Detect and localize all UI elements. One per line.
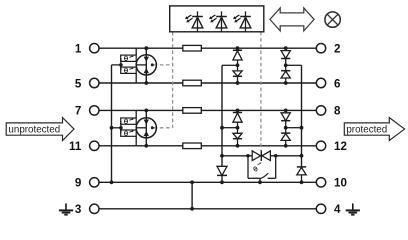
wire line 11-12 (row 11): [99, 145, 316, 147]
junction x285.7 row y110.4: [284, 109, 288, 113]
wire left mid rail: [221, 65, 223, 166]
wire earth line 3-4 (row 3): [99, 208, 316, 210]
ground symbol left: [59, 203, 73, 214]
thermal fuse top F1: [121, 55, 137, 61]
terminal 6: [316, 77, 341, 90]
junction x237.5 row y110.4: [236, 109, 240, 113]
wire tap right chain to right rail upper: [286, 64, 302, 66]
svg-text:4: 4: [334, 203, 341, 216]
svg-text:6: 6: [334, 77, 341, 90]
junction gdt axis row y145.8: [144, 144, 148, 148]
diode V3 (cathode down): [281, 51, 290, 66]
junction chain mid x237.5 y65.3: [236, 63, 240, 67]
wire electrode axis F1: [145, 48, 147, 83]
junction bus right: [300, 154, 304, 158]
wire ground bus 9-10 (row 9): [99, 181, 316, 183]
terminal 11: [69, 140, 99, 153]
wire electrode axis F2: [145, 110, 147, 145]
terminal 5: [75, 77, 99, 90]
wire vertical row9 to row3: [191, 182, 193, 209]
wire fuse tap F2: [112, 127, 121, 129]
thermal fuse bottom F2: [121, 130, 137, 136]
junction disconnect box right: [274, 154, 278, 158]
diode V6 (cathode down): [233, 128, 242, 146]
junction left rail lower tap: [220, 126, 224, 130]
gas discharge tube F1: [136, 55, 156, 75]
dashed tap from gas discharge tube F2: [154, 127, 173, 129]
junction fuse tap F2 at bridge: [119, 126, 123, 130]
junction disconnect box left: [246, 154, 250, 158]
wire line 5-6 (row 5): [99, 82, 316, 84]
junction chain mid x237.5 y127.7: [236, 126, 240, 130]
svg-text:5: 5: [75, 77, 82, 90]
thermal fuse bottom F1: [121, 67, 137, 73]
diode V10 (ground to right rail, cathode up): [297, 167, 306, 182]
terminal 1: [75, 43, 99, 56]
junction x237.5 row y48.2: [236, 46, 240, 50]
LED 3: [233, 11, 251, 31]
svg-text:8: 8: [334, 105, 341, 118]
junction ground bus rail right: [300, 180, 304, 184]
wire line 1-2 (row 1): [99, 47, 316, 49]
junction ground bus connector: [190, 180, 194, 184]
junction gdt axis row y48.2: [144, 46, 148, 50]
svg-text:protected: protected: [346, 125, 387, 136]
thermal fuse stub top F2: [135, 110, 137, 118]
svg-text:7: 7: [75, 105, 81, 118]
terminal 10: [316, 177, 347, 190]
svg-text:2: 2: [334, 43, 340, 56]
junction x237.5 row y83.0: [236, 81, 240, 85]
wire tap left chain to left rail lower: [222, 127, 238, 129]
indicator box: [170, 6, 264, 32]
junction x285.7 row y145.8: [284, 144, 288, 148]
double arrow symbol: [270, 8, 314, 31]
junction chain mid x285.7 y127.7: [284, 126, 288, 130]
svg-text:12: 12: [334, 140, 347, 153]
gas discharge tube F2: [136, 118, 156, 138]
wire summation bus: [222, 155, 302, 157]
junction gdt axis row y83.0: [144, 81, 148, 85]
junction x237.5 row y145.8: [236, 144, 240, 148]
diode V5 (cathode up): [233, 113, 242, 128]
fuse bridge wire F1: [120, 58, 122, 70]
diode V7 (cathode down): [281, 113, 290, 128]
svg-text:3: 3: [75, 203, 82, 216]
terminal 3: [75, 203, 99, 216]
resistor R3: [183, 108, 202, 114]
junction chain mid x285.7 y65.3: [284, 63, 288, 67]
junction earth line connector: [190, 207, 194, 211]
junction monitor rail at ground bus: [110, 180, 114, 184]
terminal 7: [75, 105, 99, 118]
terminal 9: [75, 177, 99, 190]
diode V2 (cathode down): [233, 65, 242, 83]
terminal 4: [316, 203, 341, 216]
junction gdt axis row y110.4: [144, 109, 148, 113]
junction x285.7 row y83.0: [284, 81, 288, 85]
dashed monitor line vertical left: [172, 32, 174, 128]
LED 1: [185, 11, 203, 31]
diode V4 (cathode up): [281, 65, 290, 83]
junction fuse tap F1: [119, 63, 123, 67]
thermal fuse stub bottom F1: [135, 73, 137, 83]
svg-text:10: 10: [334, 177, 347, 190]
junction ground bus disconnect: [258, 180, 262, 184]
dashed monitor line vertical right: [260, 32, 262, 151]
dashed tap from gas discharge tube F1: [154, 64, 173, 66]
junction x285.7 row y48.2: [284, 46, 288, 50]
junction ground bus rail left: [220, 180, 224, 184]
indicator lamp: [325, 12, 340, 27]
junction fuse tap F2 on rail: [110, 126, 114, 130]
wire right mid rail: [301, 65, 303, 167]
terminal 2: [316, 43, 340, 56]
svg-text:unprotected: unprotected: [8, 125, 60, 136]
arrow label protected: [344, 118, 404, 141]
diode V9 (left rail to ground, cathode down): [217, 166, 227, 182]
arrow label unprotected: [6, 118, 74, 141]
resistor R2: [183, 80, 202, 86]
thermal fuse stub bottom F2: [135, 136, 137, 146]
wire line 7-8 (row 7): [99, 109, 316, 111]
wire tap right chain to right rail lower: [286, 127, 302, 129]
svg-text:1: 1: [75, 43, 82, 56]
bidirectional suppressor V11: [252, 150, 270, 161]
resistor R1: [183, 45, 202, 51]
wire tap left chain to left rail upper: [222, 64, 238, 66]
diode V8 (cathode up): [281, 128, 290, 146]
junction right rail lower tap: [300, 126, 304, 130]
thermal fuse top F2: [121, 118, 137, 124]
thermal fuse stub top F1: [135, 48, 137, 55]
wire fuse tap F1: [112, 64, 121, 66]
svg-text:9: 9: [75, 177, 82, 190]
svg-text:11: 11: [69, 140, 82, 153]
diode V1 (cathode up): [233, 50, 242, 65]
LED 2: [209, 11, 227, 31]
wire disconnect to ground bus: [259, 178, 261, 182]
fuse bridge wire F2: [120, 121, 122, 133]
wire monitor rail left: [111, 65, 113, 182]
terminal 8: [316, 105, 341, 118]
junction bus left: [220, 154, 224, 158]
resistor R4: [183, 143, 202, 149]
thermal disconnect box: [248, 156, 276, 179]
ground symbol right: [346, 203, 360, 214]
terminal 12: [316, 140, 347, 153]
